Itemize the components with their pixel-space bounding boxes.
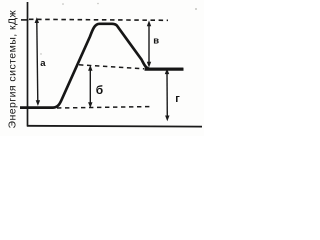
arrow б (middle): [88, 65, 92, 108]
arrow a (activation energy, left): [35, 17, 41, 106]
dashed line at peak level: [29, 19, 168, 20]
svg-text:в: в: [153, 36, 159, 47]
tick on axis at peak level: [21, 19, 29, 21]
svg-text:б: б: [96, 83, 103, 97]
dashed line at product level (middle): [79, 65, 144, 69]
x-axis: [27, 125, 202, 128]
y-axis: [27, 2, 29, 127]
arrow г (far right): [165, 68, 170, 121]
energy curve: reactant level, rise, plateau, fall, product level: [20, 24, 183, 108]
svg-text:а: а: [40, 58, 46, 69]
arrow в (right of peak): [147, 20, 151, 67]
scan speckles: [62, 3, 64, 5]
svg-text:г: г: [175, 93, 180, 105]
dashed line at reactant level (bottom): [57, 107, 150, 108]
product level (extra thickness): [145, 68, 184, 71]
svg-text:Энергия системы, кДж: Энергия системы, кДж: [7, 10, 19, 129]
